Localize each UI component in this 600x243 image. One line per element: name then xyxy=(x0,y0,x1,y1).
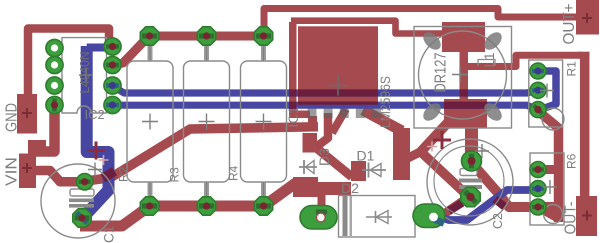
svg-text:IC1: IC1 xyxy=(286,106,301,127)
svg-text:L4940N: L4940N xyxy=(78,52,92,94)
svg-text:DR127: DR127 xyxy=(433,52,450,92)
svg-text:C1: C1 xyxy=(101,226,116,243)
svg-text:R2: R2 xyxy=(117,166,131,182)
svg-text:D1: D1 xyxy=(357,148,375,164)
svg-text:D3: D3 xyxy=(316,148,332,166)
svg-text:IC2: IC2 xyxy=(85,107,105,122)
svg-text:VIN: VIN xyxy=(4,157,21,186)
svg-text:R4: R4 xyxy=(227,165,241,181)
svg-text:OUT+: OUT+ xyxy=(561,4,578,45)
svg-text:R3: R3 xyxy=(168,167,182,183)
svg-text:L1: L1 xyxy=(482,52,497,67)
svg-text:GND: GND xyxy=(4,103,21,132)
svg-text:OUT-: OUT- xyxy=(563,202,580,235)
svg-text:R1: R1 xyxy=(565,61,579,77)
svg-text:R6: R6 xyxy=(564,153,578,169)
svg-text:LM2596S: LM2596S xyxy=(378,76,393,128)
svg-text:C2: C2 xyxy=(491,213,505,229)
svg-text:D2: D2 xyxy=(341,180,359,196)
